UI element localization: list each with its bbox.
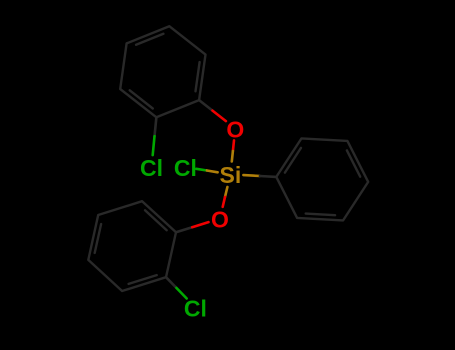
bond Si-phenyl	[243, 174, 260, 177]
bond Si-Cl	[196, 169, 207, 171]
svg-text:Cl: Cl	[174, 155, 197, 181]
svg-text:O: O	[211, 206, 229, 232]
svg-text:Si: Si	[220, 162, 242, 188]
bond Si-O (lower)	[225, 187, 227, 197]
bond C-O (bottom aryl to O)	[176, 227, 192, 232]
bond C-O (top aryl to O)	[199, 100, 212, 111]
svg-text:Cl: Cl	[140, 155, 163, 181]
svg-text:Cl: Cl	[184, 295, 207, 321]
bond O-Si (upper)	[233, 140, 234, 151]
bond C-Cl (top ring)	[155, 117, 157, 136]
svg-text:O: O	[226, 116, 244, 142]
top chlorophenyl ring	[120, 26, 205, 117]
phenyl ring on Si	[276, 138, 368, 220]
bottom chlorophenyl ring	[88, 201, 176, 291]
bond C-Cl (bottom ring)	[166, 277, 176, 288]
